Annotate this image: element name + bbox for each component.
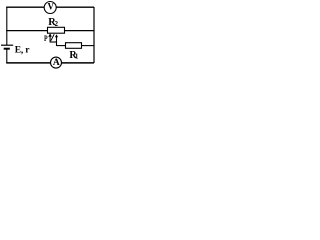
svg-text:r: r [25,45,30,55]
svg-text:1: 1 [75,53,79,61]
svg-text:,: , [21,46,24,56]
svg-text:P: P [44,33,48,43]
svg-text:2: 2 [55,20,59,28]
svg-text:V: V [47,1,54,11]
svg-text:A: A [53,58,60,68]
